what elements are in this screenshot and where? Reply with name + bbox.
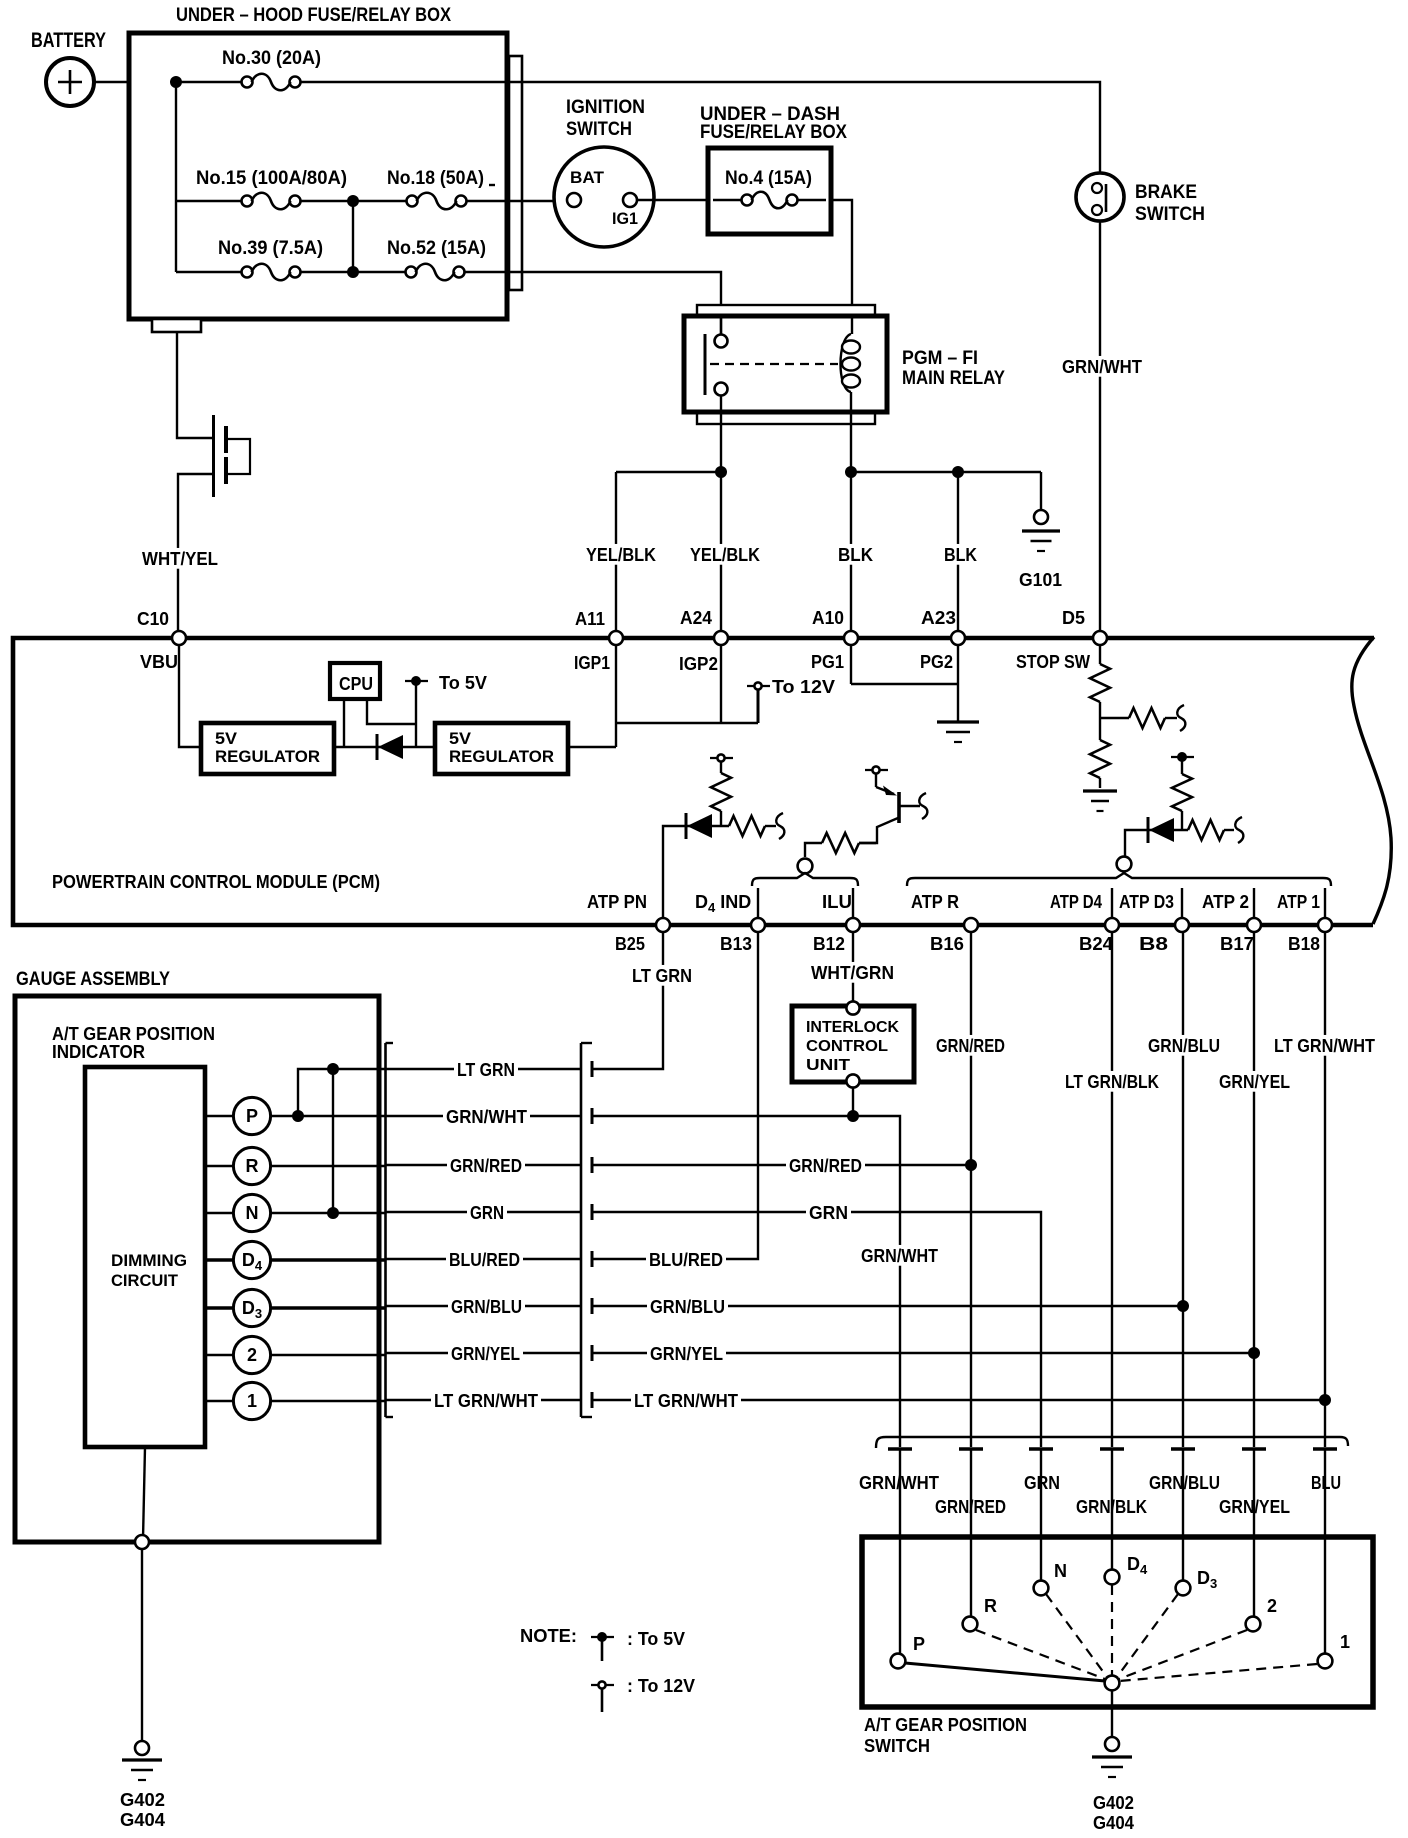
pin B17 / ATP 2 [1202, 892, 1261, 954]
svg-text:A24: A24 [680, 608, 712, 628]
svg-text:GRN/YEL: GRN/YEL [1219, 1072, 1290, 1092]
resistor R2 (to other circuit) [1129, 705, 1185, 731]
wire GRN/YEL: pin B17 to switch 2 [1216, 932, 1293, 1447]
ground G101 [1019, 472, 1062, 590]
svg-text:BLU/RED: BLU/RED [649, 1250, 723, 1270]
wire YEL/BLK to A11 [583, 472, 659, 638]
svg-text:No.15 (100A/80A): No.15 (100A/80A) [196, 168, 347, 189]
wire: IG1 to under-dash fuse box [637, 199, 710, 201]
svg-text:LT GRN: LT GRN [632, 966, 692, 986]
wire GRN/RED: C2 to B16 wire [592, 1155, 977, 1176]
svg-text:GRN/BLU: GRN/BLU [451, 1297, 522, 1317]
pin B24 / ATP D4 [1050, 892, 1119, 954]
svg-text:BLU/RED: BLU/RED [449, 1250, 520, 1270]
dashed throw to 1 [1119, 1664, 1317, 1681]
wire GRN/YEL: C2 to B17 wire [592, 1343, 1260, 1364]
svg-text:GRN: GRN [809, 1203, 848, 1223]
svg-text:POWERTRAIN CONTROL MODULE (PCM: POWERTRAIN CONTROL MODULE (PCM) [52, 872, 380, 892]
svg-text:MAIN RELAY: MAIN RELAY [902, 368, 1005, 389]
wire: switch common to ground [1111, 1690, 1113, 1737]
pin A10 / PG1 [811, 608, 858, 672]
svg-text:ATP D3: ATP D3 [1119, 892, 1174, 912]
wire GRN/WHT: brake switch to PCM D5 [1059, 221, 1145, 638]
indicator bulb 1 [205, 1382, 271, 1419]
A/T gear position switch box [862, 1537, 1373, 1756]
switch contact P [891, 1449, 925, 1668]
diode D2 (D4 IND) [686, 813, 729, 839]
harness wires gauge to C2 [386, 1069, 581, 1400]
svg-text:IG1: IG1 [612, 209, 638, 228]
ground G402/G404 (switch) [1092, 1737, 1134, 1833]
capacitor/backup unit between fuse box and VBU [177, 332, 250, 638]
svg-text:REGULATOR: REGULATOR [449, 747, 554, 766]
svg-text:B25: B25 [615, 934, 645, 954]
switch connector rail [876, 1437, 1348, 1448]
wire GRN/WHT: C2 to interlock junction and switch [592, 1110, 941, 1447]
wire LT GRN inside gauge (to P and N) [292, 1063, 385, 1219]
wire WHT/GRN: pin B12 to interlock unit [808, 932, 897, 1001]
node: battery bus junction [170, 76, 182, 272]
wire GRN/RED: pin B16 to switch R [933, 932, 1008, 1447]
internal ground (PG) [937, 720, 979, 723]
svg-text:GRN/WHT: GRN/WHT [1062, 357, 1142, 377]
PCM (powertrain control module) box [13, 637, 1391, 925]
legend To 12V symbol [591, 1676, 695, 1712]
svg-text:STOP SW: STOP SW [1016, 652, 1090, 672]
wire regulator 2 to IGP1/IGP2 [568, 645, 758, 747]
switch wire labels [856, 1472, 1344, 1517]
fuse No.18 (50A) [353, 168, 521, 209]
svg-text:GRN/YEL: GRN/YEL [451, 1344, 520, 1364]
tap To 12V (IGP rail) [747, 677, 835, 723]
switch contact 1 [1318, 1449, 1350, 1668]
svg-text:P: P [913, 1634, 925, 1654]
switch common contact [1105, 1676, 1120, 1691]
node: stop sw divider [1100, 717, 1129, 719]
resistor R3 [1090, 718, 1110, 788]
svg-text:GRN/WHT: GRN/WHT [446, 1107, 527, 1127]
svg-text:1: 1 [1340, 1632, 1350, 1652]
switch contact 2 [1246, 1449, 1277, 1631]
svg-text:B16: B16 [930, 934, 964, 954]
wire LT GRN/BLK: pin B24 to switch D4 [1062, 932, 1162, 1447]
PGM-FI main relay [684, 305, 1005, 424]
svg-text:CPU: CPU [339, 674, 373, 694]
svg-text:B13: B13 [720, 934, 752, 954]
svg-text:DIMMING: DIMMING [111, 1251, 187, 1270]
harness wire labels [431, 1059, 541, 1411]
ignition switch [554, 97, 654, 247]
svg-text:PGM – FI: PGM – FI [902, 348, 978, 369]
fuse No.15 (100A/80A) [176, 168, 353, 209]
wire LT GRN/WHT: C2 to B18 wire [592, 1390, 1331, 1411]
svg-text:CIRCUIT: CIRCUIT [111, 1271, 179, 1290]
svg-text:INTERLOCK: INTERLOCK [806, 1019, 899, 1036]
tap To 5V (ATP pull-up) [1171, 752, 1194, 774]
fuse No.30 (20A) [176, 48, 511, 90]
svg-text:BLK: BLK [944, 545, 977, 565]
svg-text:SWITCH: SWITCH [566, 119, 632, 140]
dashed throw to N [1046, 1594, 1107, 1677]
fuse No.52 (15A) [353, 238, 521, 280]
svg-text:G404: G404 [120, 1810, 165, 1830]
pin A11 / IGP1 [574, 609, 623, 673]
pin B12 / ILU [813, 892, 860, 954]
svg-text:1: 1 [247, 1391, 257, 1411]
svg-text:To 5V: To 5V [439, 673, 487, 693]
pin C10 / VBU [137, 609, 186, 672]
wire GRN/BLU: C2 to B8 wire [592, 1296, 1189, 1317]
resistor R5 (D4 IND to other circuit) [729, 813, 784, 839]
tap To 12V (ILU) [865, 769, 888, 771]
svg-text:GRN/RED: GRN/RED [789, 1156, 862, 1176]
svg-text:CONTROL: CONTROL [806, 1038, 888, 1055]
svg-text:BLK: BLK [838, 545, 873, 565]
svg-text:LT GRN/WHT: LT GRN/WHT [1274, 1036, 1375, 1056]
transistor Q1 (ILU) [859, 773, 927, 843]
wire CPU to regulator rail [343, 699, 345, 747]
interlock control unit [792, 1001, 914, 1087]
svg-text:UNDER – HOOD FUSE/RELAY BOX: UNDER – HOOD FUSE/RELAY BOX [176, 5, 451, 26]
svg-text:GRN/BLU: GRN/BLU [650, 1297, 725, 1317]
indicator bulb 2 [205, 1336, 271, 1373]
gauge assembly box [15, 969, 379, 1542]
svg-text:A10: A10 [812, 608, 844, 628]
svg-text:GRN/RED: GRN/RED [450, 1156, 522, 1176]
svg-text:N: N [1054, 1561, 1067, 1581]
svg-text:INDICATOR: INDICATOR [52, 1042, 145, 1062]
svg-text:B12: B12 [813, 934, 845, 954]
svg-text:B17: B17 [1220, 934, 1254, 954]
svg-text:N: N [246, 1203, 259, 1223]
svg-text:GRN/YEL: GRN/YEL [650, 1344, 723, 1364]
svg-text:2: 2 [1267, 1596, 1277, 1616]
svg-text:No.30 (20A): No.30 (20A) [222, 48, 321, 69]
5V regulator 1 (U2) [201, 723, 334, 774]
svg-text:No.4 (15A): No.4 (15A) [725, 168, 812, 189]
svg-text:ATP R: ATP R [911, 892, 959, 912]
svg-text:GRN/RED: GRN/RED [936, 1036, 1005, 1056]
connector C2 [581, 1043, 592, 1417]
ATP internal connector brace [907, 857, 1331, 886]
wire: interlock unit to GRN/WHT junction [852, 1088, 854, 1116]
wire PG1/PG2 to internal ground [851, 645, 958, 722]
svg-text:IGNITION: IGNITION [566, 97, 645, 118]
wire: diode D2 to pin B25 [663, 826, 686, 918]
stop switch sense: resistor R1 [1090, 645, 1110, 718]
svg-text:WHT/YEL: WHT/YEL [142, 549, 218, 569]
indicator bulb P [205, 1097, 271, 1134]
pin label separators [758, 888, 1325, 918]
svg-text:G101: G101 [1019, 570, 1062, 590]
fuse No.39 (7.5A) [176, 238, 353, 280]
pin B25 / ATP PN [587, 892, 670, 954]
pin A24 / IGP2 [679, 608, 728, 674]
wire CPU to 5V tap rail [367, 699, 416, 724]
pin B16 / ATP R [911, 892, 978, 954]
fuse No.4 (15A) [713, 168, 826, 208]
svg-text:FUSE/RELAY BOX: FUSE/RELAY BOX [700, 122, 847, 143]
legend To 5V symbol [591, 1629, 685, 1661]
ILU/D4-IND internal connector brace [752, 859, 858, 886]
ILU drive: resistor R6 [805, 833, 876, 857]
svg-text:BATTERY: BATTERY [31, 29, 106, 52]
under-hood fuse/relay box [129, 5, 522, 332]
svg-text:A/T GEAR POSITION: A/T GEAR POSITION [864, 1715, 1027, 1735]
svg-text:REGULATOR: REGULATOR [215, 747, 320, 766]
svg-text:YEL/BLK: YEL/BLK [690, 545, 760, 565]
wire BLK to A10 [835, 472, 876, 638]
wire: fuse box to ignition switch BAT [521, 200, 567, 202]
under-dash fuse/relay box [700, 104, 847, 234]
wire GRN: C2 to switch N [592, 1202, 1041, 1447]
wire: relay contact down to A24/A11 junction [616, 395, 727, 478]
wire VBU to 5V regulator 1 [179, 645, 201, 747]
svg-text:: To 5V: : To 5V [627, 1629, 685, 1649]
wire: dimming circuit to gauge ground [135, 1447, 149, 1741]
note legend [520, 1626, 577, 1646]
svg-text:GRN/BLU: GRN/BLU [1149, 1473, 1220, 1493]
svg-text:GRN/WHT: GRN/WHT [861, 1246, 938, 1266]
battery B1 [31, 29, 106, 106]
svg-text:To 12V: To 12V [772, 677, 835, 697]
svg-text:B18: B18 [1288, 934, 1320, 954]
gauge output wires [270, 1116, 385, 1401]
resistor R4 (D4 IND pull-up) [711, 773, 731, 826]
wire LT GRN/WHT: pin B18 to switch 1 [1271, 932, 1378, 1447]
CPU (U1) [330, 663, 380, 699]
svg-text:GRN: GRN [470, 1203, 504, 1223]
5V regulator 2 (U3) [435, 723, 568, 774]
svg-text:G402: G402 [120, 1790, 165, 1810]
wire: No.4 fuse to PGM-FI relay coil [831, 200, 852, 305]
svg-text:PG2: PG2 [920, 652, 953, 672]
svg-text:D5: D5 [1062, 608, 1085, 628]
wire WHT/YEL label [139, 548, 221, 569]
internal ground (stop sw) [1083, 789, 1117, 792]
pin B13 / D4 IND [695, 892, 765, 954]
svg-text:No.52 (15A): No.52 (15A) [387, 238, 486, 259]
dashed throw to D4 [1111, 1585, 1113, 1675]
indicator bulb D3 [205, 1289, 271, 1326]
wire BLU/RED: C2 to pin B13 [592, 932, 758, 1270]
indicator bulb R [205, 1147, 271, 1184]
wire BLK to A23 [941, 472, 980, 638]
svg-text:LT GRN: LT GRN [457, 1060, 515, 1080]
svg-text:IGP2: IGP2 [679, 654, 718, 674]
pin D5 / STOP SW [1016, 608, 1107, 672]
node: junction No.15/No.18/No.52 [347, 195, 359, 278]
svg-text:WHT/GRN: WHT/GRN [811, 963, 894, 983]
switch contact D4 [1105, 1449, 1148, 1584]
svg-text:GRN/BLU: GRN/BLU [1148, 1036, 1220, 1056]
svg-text:G404: G404 [1093, 1813, 1134, 1833]
wire: No.52 fuse to PGM-FI relay contact [521, 272, 721, 334]
svg-text:SWITCH: SWITCH [864, 1736, 930, 1756]
wire LT GRN: C2 to pin B25 [592, 932, 695, 1069]
svg-text:YEL/BLK: YEL/BLK [586, 545, 656, 565]
svg-text:ILU: ILU [822, 892, 852, 912]
switch contact D3 [1176, 1449, 1218, 1595]
dashed throw to D3 [1117, 1594, 1178, 1677]
wire GRN/BLU: pin B8 to switch D3 [1145, 932, 1223, 1447]
wire: relay coil down to A10/A23/G101 junction [845, 392, 1041, 478]
svg-text:5V: 5V [215, 729, 238, 748]
tap To 5V (internal) [405, 673, 487, 747]
svg-text:IGP1: IGP1 [574, 653, 610, 673]
svg-text:R: R [984, 1596, 997, 1616]
diode D1 between regulators [334, 734, 435, 760]
svg-text:R: R [246, 1156, 259, 1176]
svg-text:: To 12V: : To 12V [627, 1676, 695, 1696]
wire battery to fuse box [94, 81, 131, 83]
svg-text:B8: B8 [1139, 934, 1168, 954]
svg-text:No.39 (7.5A): No.39 (7.5A) [218, 238, 323, 259]
svg-text:ATP 2: ATP 2 [1202, 892, 1249, 912]
svg-text:SWITCH: SWITCH [1135, 204, 1205, 225]
svg-text:UNIT: UNIT [806, 1057, 850, 1074]
svg-text:NOTE:: NOTE: [520, 1626, 577, 1646]
svg-text:LT GRN/WHT: LT GRN/WHT [434, 1391, 538, 1411]
svg-text:D4 IND: D4 IND [695, 892, 751, 915]
svg-text:ATP D4: ATP D4 [1050, 892, 1102, 912]
resistor R7 (ATP pull-up) [1172, 774, 1192, 830]
svg-text:No.18 (50A): No.18 (50A) [387, 168, 484, 189]
dimming circuit box [85, 1067, 205, 1447]
svg-text:PG1: PG1 [811, 652, 844, 672]
svg-text:BRAKE: BRAKE [1135, 182, 1197, 203]
svg-text:2: 2 [247, 1345, 257, 1365]
svg-text:A23: A23 [921, 608, 956, 628]
switch contact R [963, 1449, 997, 1631]
svg-text:P: P [246, 1106, 258, 1126]
switch connector ticks [888, 1447, 1337, 1450]
pin B8 / ATP D3 [1119, 892, 1189, 954]
svg-text:G402: G402 [1093, 1793, 1134, 1813]
dashed throw to 2 [1119, 1630, 1247, 1679]
svg-text:ATP 1: ATP 1 [1277, 892, 1320, 912]
svg-text:A11: A11 [575, 609, 605, 629]
indicator bulb N [205, 1194, 271, 1231]
wire: No.30 fuse to brake switch rail [511, 82, 1100, 174]
svg-text:A/T GEAR POSITION: A/T GEAR POSITION [52, 1024, 215, 1044]
tap To 12V (D4 IND pull-up) [710, 754, 733, 773]
svg-text:ATP PN: ATP PN [587, 892, 647, 912]
switch contact N [1034, 1449, 1067, 1595]
indicator bulb D4 [205, 1241, 271, 1278]
svg-text:C10: C10 [137, 609, 169, 629]
dashed throw to R [976, 1630, 1105, 1679]
svg-text:5V: 5V [449, 729, 472, 748]
pin A23 / PG2 [920, 608, 965, 672]
pin B18 / ATP 1 [1277, 892, 1332, 954]
svg-text:B24: B24 [1079, 934, 1113, 954]
wire: diode D3 to ATP connector circle [1125, 830, 1148, 857]
svg-text:LT GRN/BLK: LT GRN/BLK [1065, 1072, 1159, 1092]
ground G402/G404 (gauge) [120, 1741, 165, 1830]
resistor R8 (ATP to other circuit) [1188, 817, 1243, 843]
svg-text:VBU: VBU [140, 652, 178, 672]
diode D3 (ATP) [1148, 817, 1188, 843]
svg-text:BAT: BAT [570, 168, 605, 187]
brake switch [1076, 173, 1205, 225]
connector C1 (gauge side) [386, 1043, 394, 1417]
wire YEL/BLK to A24 [687, 472, 763, 638]
svg-text:LT GRN/WHT: LT GRN/WHT [634, 1391, 738, 1411]
svg-text:GAUGE ASSEMBLY: GAUGE ASSEMBLY [16, 969, 170, 990]
switch wiper: P to common (solid) [905, 1663, 1105, 1681]
